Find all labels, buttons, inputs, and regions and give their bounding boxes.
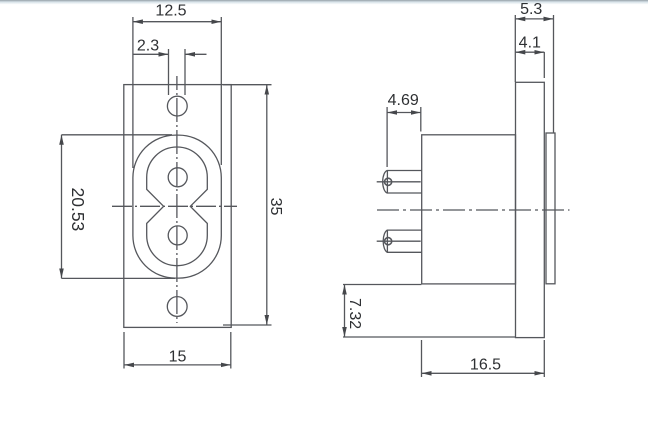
side view back plate: [546, 133, 555, 284]
svg-text:16.5: 16.5: [470, 357, 501, 374]
side view horizontal centerline: [377, 209, 570, 211]
dim 4.69 dimension line: [387, 112, 421, 114]
svg-text:5.3: 5.3: [520, 1, 542, 18]
dim 16.5 dimension line: [422, 372, 545, 374]
front plate outline: [124, 85, 231, 328]
dim 4.1 extension line: [543, 52, 545, 78]
dim 2.3 leader right: [185, 53, 207, 55]
dim 20.53 dimension line: [61, 135, 63, 279]
dim 7.32 dimension line: [344, 285, 346, 338]
top pin body: [387, 171, 421, 194]
top pin tip circle: [385, 178, 392, 185]
pin hole bottom: [168, 226, 187, 245]
pin hole top: [168, 168, 187, 187]
bottom pin tip circle: [385, 238, 392, 245]
dim 15 extension lines: [123, 332, 125, 369]
dim 5.3 dimension line: [515, 18, 553, 20]
dim 35 extension lines: [223, 84, 272, 86]
dim 4.1 dimension line: [515, 51, 544, 53]
mounting hole top: [167, 96, 187, 116]
horizontal centerline front view: [112, 205, 237, 207]
vertical centerline front view: [176, 76, 178, 323]
bottom pin body: [387, 230, 421, 252]
dim 7.32 extension lines: [343, 284, 421, 286]
svg-text:2.3: 2.3: [137, 38, 159, 55]
dim 16.5 extension lines: [421, 340, 423, 377]
side view body outline: [422, 135, 516, 284]
dim 2.3 leader left: [133, 53, 169, 55]
dim 2.3 extension lines: [168, 49, 170, 95]
svg-text:15: 15: [169, 349, 187, 366]
svg-text:20.53: 20.53: [68, 188, 88, 232]
dim 20.53 extension lines: [62, 134, 173, 136]
socket figure-8 inner contour: [147, 147, 208, 266]
svg-text:12.5: 12.5: [155, 3, 186, 20]
dim 12.5 dimension line: [133, 21, 221, 23]
top blue band: [0, 0, 648, 5]
bottom pin rounded tip: [383, 230, 387, 252]
svg-text:35: 35: [267, 198, 284, 216]
svg-text:7.32: 7.32: [346, 298, 363, 329]
svg-text:4.1: 4.1: [519, 35, 541, 52]
side view flange: [516, 82, 545, 337]
dim 5.3 extension lines: [514, 15, 516, 82]
dim 15 dimension line: [124, 364, 231, 366]
dim 12.5 extension lines: [132, 17, 134, 168]
top pin centerline: [377, 181, 421, 183]
socket recess outer stadium: [133, 135, 221, 278]
dim 4.69 extension lines: [386, 107, 388, 167]
dim 35 dimension line: [266, 85, 268, 325]
bottom pin centerline: [377, 240, 421, 242]
svg-text:4.69: 4.69: [388, 92, 419, 109]
top pin rounded tip: [383, 171, 388, 194]
mounting hole bottom: [167, 297, 187, 317]
